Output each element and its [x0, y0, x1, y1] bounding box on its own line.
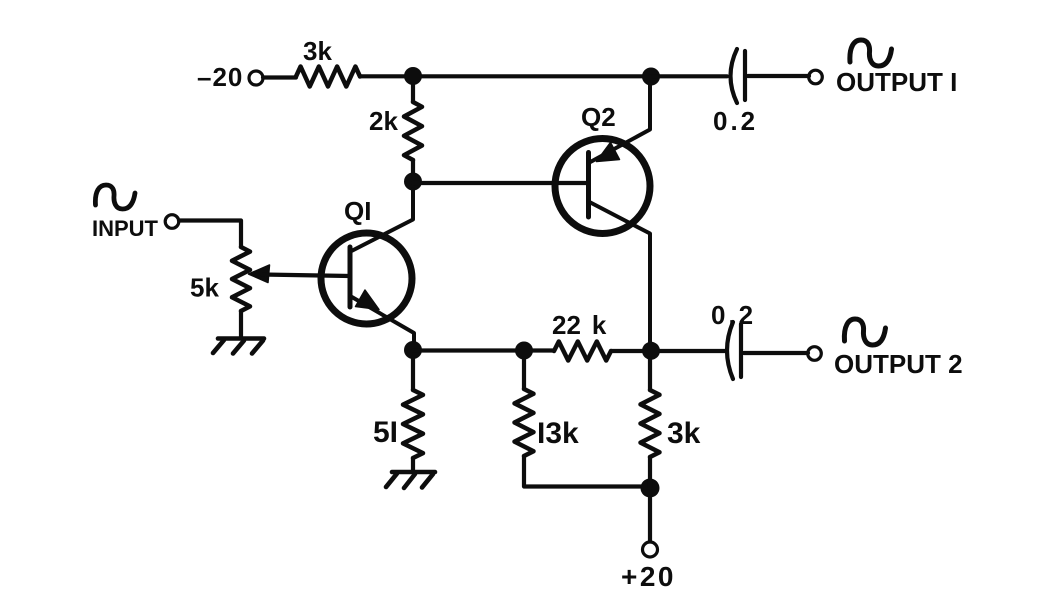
terminal OUTPUT 2	[808, 347, 822, 361]
wire	[648, 495, 652, 541]
wire	[522, 359, 526, 390]
resistor 13k	[515, 389, 534, 456]
svg-text:3k: 3k	[667, 417, 701, 450]
capacitor C2 0.2	[727, 322, 733, 379]
wire	[651, 74, 727, 78]
transistor Q1	[321, 189, 414, 342]
wire	[411, 84, 415, 102]
resistor 2k	[404, 102, 422, 160]
resistor 3k (right)	[641, 390, 660, 457]
transistor Q2	[555, 76, 650, 351]
node G (+20 node)	[641, 479, 660, 498]
wire	[411, 458, 415, 471]
resistor 51	[403, 390, 423, 458]
wire	[411, 160, 415, 174]
svg-text:+20: +20	[621, 561, 676, 592]
node B (top rail / Q2 emitter)	[642, 68, 660, 86]
terminal -20	[249, 71, 263, 85]
svg-text:QI: QI	[344, 196, 371, 226]
ac source symbol (output 2)	[844, 319, 885, 345]
node E (13k tap)	[515, 342, 533, 360]
wire	[360, 74, 651, 78]
wire	[524, 456, 650, 487]
wire	[744, 351, 808, 355]
wire	[411, 358, 415, 390]
wire	[263, 75, 296, 79]
ground (below 5k)	[213, 339, 264, 354]
node D (Q1 emitter node)	[404, 341, 422, 359]
node F (output 2 node)	[642, 342, 660, 360]
capacitor C1 0.2	[731, 49, 738, 103]
svg-text:5k: 5k	[190, 273, 219, 303]
wire	[648, 457, 652, 488]
wire	[239, 311, 243, 337]
svg-text:3k: 3k	[303, 36, 332, 66]
ac source symbol (output 1)	[850, 40, 892, 66]
svg-text:0.2: 0.2	[711, 300, 756, 330]
terminal +20	[643, 542, 658, 557]
ac source symbol (input)	[95, 185, 135, 209]
node A (top rail / 2k)	[404, 67, 422, 85]
potentiometer wiper arrow	[249, 265, 270, 283]
svg-text:INPUT: INPUT	[92, 216, 159, 241]
ground (below 51)	[386, 472, 435, 488]
svg-text:22k: 22k	[552, 310, 607, 340]
wire	[748, 74, 809, 78]
wire	[648, 359, 652, 391]
terminal OUTPUT 1	[809, 70, 823, 84]
node C (2k / Q1 collector / Q2 base)	[404, 173, 422, 191]
wire (wiper to Q1 base)	[262, 275, 350, 277]
svg-text:5I: 5I	[373, 416, 398, 449]
svg-text:2k: 2k	[369, 106, 398, 136]
svg-text:I3k: I3k	[537, 417, 579, 450]
wire	[611, 349, 727, 353]
wire (to Q2 base)	[413, 181, 588, 185]
potentiometer 5k	[232, 247, 250, 311]
svg-text:0.2: 0.2	[713, 106, 758, 136]
svg-text:Q2: Q2	[581, 102, 616, 132]
wire (bottom rail)	[413, 348, 554, 352]
svg-text:–20: –20	[197, 62, 243, 92]
svg-text:OUTPUT 2: OUTPUT 2	[834, 349, 963, 379]
resistor 3k (top)	[296, 67, 360, 87]
terminal INPUT	[165, 215, 179, 229]
resistor 22k	[554, 342, 611, 361]
wire	[179, 221, 241, 248]
svg-text:OUTPUT I: OUTPUT I	[836, 67, 957, 97]
